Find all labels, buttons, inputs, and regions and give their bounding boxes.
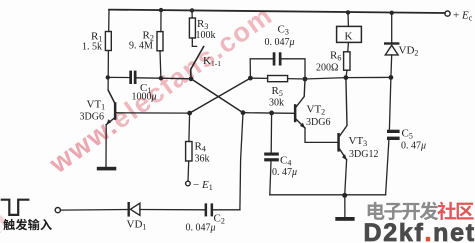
- wire: cross diagonal VT1 base node to C3 node: [190, 78, 251, 113]
- capacitor C1: [108, 76, 130, 78]
- transistor VT2: [243, 112, 294, 115]
- svg-text:0. 047μ: 0. 047μ: [265, 37, 295, 48]
- svg-text:D2kf.net: D2kf.net: [364, 219, 475, 243]
- wire: R3 bottom lead with contact foot: [192, 38, 196, 46]
- wire: VT2 collector rail to VD2 line: [305, 77, 391, 79]
- wire: R6 bottom lead: [346, 70, 347, 77]
- svg-text:+ Ec: + Ec: [453, 10, 473, 23]
- node: R2 top: [159, 8, 163, 12]
- ground (VT1 emitter): [97, 167, 117, 171]
- svg-text:VD1: VD1: [127, 219, 147, 232]
- node: C1 tap on R1 line: [106, 75, 110, 79]
- wire: bottom rail: [270, 194, 386, 196]
- node: R3 top: [190, 8, 194, 12]
- node: VD2/C5 junction: [389, 75, 394, 80]
- svg-text:0. 47μ: 0. 47μ: [272, 167, 297, 178]
- wire: R3 top lead: [191, 10, 193, 18]
- svg-text:9. 4M: 9. 4M: [129, 41, 153, 52]
- wire: trigger to VD1: [60, 209, 128, 212]
- node: VT2 collector junction: [303, 77, 308, 82]
- relay K: [347, 12, 349, 26]
- capacitor C5 branch: [389, 77, 391, 129]
- svg-text:C4: C4: [280, 155, 291, 168]
- svg-text:0. 47μ: 0. 47μ: [401, 141, 426, 152]
- svg-text:C5: C5: [402, 128, 413, 141]
- wire: R4 top lead: [188, 113, 191, 141]
- terminal +Ec: [445, 11, 450, 16]
- resistor R1: [105, 32, 111, 51]
- resistor R5: [250, 77, 267, 79]
- wire: VD1 to C2: [140, 209, 205, 211]
- transistor VT3: [337, 133, 340, 152]
- svg-text:1. 5k: 1. 5k: [82, 42, 102, 53]
- svg-text:100k: 100k: [196, 30, 216, 41]
- switch K1-1 arm: [191, 47, 204, 79]
- wire: R2 bottom lead: [159, 51, 162, 78]
- svg-text:C3: C3: [278, 24, 289, 37]
- svg-text:3DG6: 3DG6: [306, 117, 330, 128]
- svg-text:VT1: VT1: [87, 99, 106, 112]
- node: VT2 base junction: [241, 110, 246, 115]
- svg-text:30k: 30k: [269, 98, 284, 109]
- diode VD1: [127, 203, 129, 215]
- resistor R3: [189, 18, 195, 38]
- svg-text:3DG12: 3DG12: [349, 149, 378, 160]
- label: trigger input (CJK): [3, 219, 52, 231]
- svg-text:K: K: [345, 31, 353, 43]
- node: VD2 top: [390, 11, 394, 15]
- terminal -E1: [186, 181, 191, 186]
- svg-text:1000μ: 1000μ: [132, 92, 157, 103]
- wire: cross diagonal A to VT2 base node: [191, 79, 243, 113]
- svg-text:R5: R5: [272, 85, 283, 98]
- wire: R1 bottom to VT1 collector: [108, 51, 115, 104]
- svg-text:3DG6: 3DG6: [80, 112, 104, 123]
- wire: R1 top lead: [108, 10, 110, 32]
- node: K top: [346, 10, 350, 14]
- node: C4 tap: [269, 111, 274, 116]
- wire: K to R6: [347, 42, 350, 51]
- node: R6/VT3 collector junction: [344, 75, 349, 80]
- svg-text:VT3: VT3: [349, 135, 368, 148]
- wire: C2 riser to VT2 base node: [240, 113, 243, 210]
- wire: node A to node B: [161, 77, 191, 80]
- logo text CJK: [368, 202, 474, 221]
- svg-text:VD2: VD2: [399, 45, 419, 58]
- transistor VT1: [116, 112, 189, 114]
- svg-text:0. 047μ: 0. 047μ: [186, 223, 216, 234]
- resistor R6: [344, 52, 350, 70]
- svg-text:VT2: VT2: [307, 104, 326, 117]
- terminal: trigger input: [55, 208, 60, 213]
- svg-text:R6: R6: [330, 50, 341, 63]
- node: ground junction: [342, 193, 347, 198]
- resistor R4: [186, 142, 192, 162]
- node: C3/R5 left junction: [248, 76, 253, 81]
- node: VT1 base junction: [187, 111, 192, 116]
- svg-text:200Ω: 200Ω: [316, 63, 338, 74]
- wire: R4 bottom lead: [187, 161, 190, 181]
- svg-text:R4: R4: [195, 141, 206, 154]
- capacitor C2: [205, 203, 208, 216]
- diode VD2: [391, 13, 393, 44]
- resistor R2: [157, 32, 163, 51]
- capacitor C3 branch: [250, 59, 273, 78]
- svg-text:− E1: − E1: [193, 179, 213, 192]
- node A: C1/R2/switch junction: [189, 76, 194, 81]
- node: R2 bottom: [159, 76, 163, 80]
- wire: top rail: [109, 10, 445, 13]
- svg-text:36k: 36k: [195, 154, 210, 165]
- trigger pulse symbol: [2, 200, 29, 215]
- wire: R2 top lead: [160, 10, 162, 32]
- ground (bottom): [344, 195, 346, 217]
- capacitor C4 branch: [270, 113, 272, 153]
